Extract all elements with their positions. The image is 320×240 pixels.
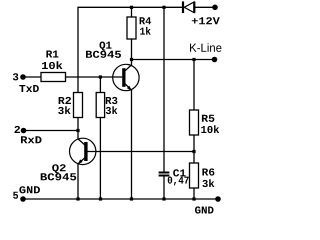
label K-Line [190,43,222,52]
label R4 [140,17,152,24]
junction base/R3 [99,75,102,78]
wire R6 bottom to GND [193,188,195,199]
wire Q2 base to R5/R6 node [88,151,195,153]
junction GND R3 [99,197,102,200]
label R1 [46,51,58,58]
wire GND rail [23,198,218,200]
node terminal K-Line [212,57,218,63]
label TxD [19,85,39,92]
wire R5 bottom to R6 top [193,135,195,163]
junction K-Line/R5 [192,58,195,61]
junction GND Q1e [130,197,133,200]
label +12V [192,17,220,24]
wire K-Line to R5 top [193,60,195,111]
junction rail/C1 [162,6,165,9]
junction rail/R4 [130,6,133,9]
label C1 value [168,177,189,186]
resistor R5 [190,110,199,135]
wire top +12V rail right segment [195,6,216,8]
node terminal 2 RxD [21,128,27,134]
wire rail to R4 top [131,7,133,17]
label R3 value [106,106,118,114]
label C1 [173,169,186,176]
label R3 [106,97,118,104]
label R4 value [140,27,151,35]
label R1 value [42,61,63,69]
wire +12V rail to C1 top [163,7,165,171]
label R5 value [201,125,219,133]
resistor R2 [74,93,83,118]
resistor R6 [190,163,199,188]
label RxD [21,136,42,143]
junction GND R6 [192,197,195,200]
transistor Q1 [113,64,139,90]
label Q2 [52,164,65,173]
diode D1 [182,1,196,13]
junction K-Line/collector [130,58,133,61]
wire C1 bottom to GND [163,176,165,199]
label GND right [195,206,214,213]
label pin 3 [13,73,18,80]
label pin 5 [13,192,18,199]
junction GND C1 [162,197,165,200]
label Q1 type [86,51,121,58]
resistor R1 [41,73,66,82]
label R5 [202,115,215,122]
label R2 [59,97,71,104]
node terminal 3 TxD [20,74,26,80]
wire R2 bottom to Q2 collector [77,118,79,140]
label R6 value [202,179,214,187]
label Q2 type [41,173,76,180]
wire TxD to R1 [23,76,41,78]
wire R4 bottom to Q1 collector [131,39,133,65]
wire Q2 emitter to GND [77,164,79,199]
node terminal 5 GND [20,196,26,202]
wire K-Line [132,59,215,61]
junction GND Q2e [76,197,79,200]
junction base Q2/R5R6 [192,150,195,153]
wire Q1 emitter to GND [131,90,133,199]
node terminal +12V [212,5,218,11]
label Q1 [100,42,112,51]
resistor R4 [127,17,136,39]
label R2 value [58,106,70,114]
label GND left [19,186,40,193]
node terminal GND right [215,196,221,202]
wire node to R3 top [99,77,101,93]
wire R3 bottom to GND [99,118,101,200]
wire RxD to node [24,130,79,132]
junction RxD node [76,129,79,132]
wire R1 to Q1 base [66,76,123,78]
wire vertical +12V rail to R2 [77,7,79,93]
resistor R3 [96,93,104,118]
label pin 2 [15,126,21,133]
transistor Q2 [70,138,96,164]
capacitor C1 [159,172,170,177]
label R6 [202,168,214,175]
wire top +12V rail left segment [78,6,183,8]
